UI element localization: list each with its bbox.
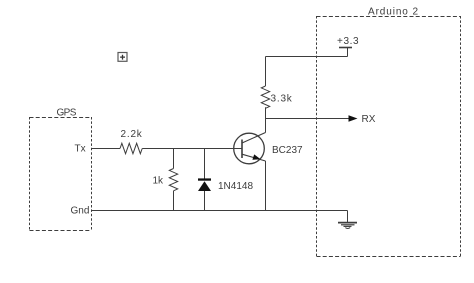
svg-text:1k: 1k xyxy=(153,175,165,186)
svg-text:GPS: GPS xyxy=(57,108,77,119)
svg-text:BC237: BC237 xyxy=(272,145,303,156)
svg-text:Arduino 2: Arduino 2 xyxy=(368,7,419,18)
svg-text:2.2k: 2.2k xyxy=(121,129,143,140)
svg-text:Tx: Tx xyxy=(75,144,86,155)
svg-text:+3.3: +3.3 xyxy=(337,36,359,47)
svg-text:3.3k: 3.3k xyxy=(271,94,293,105)
svg-text:1N4148: 1N4148 xyxy=(218,181,253,192)
svg-text:RX: RX xyxy=(362,114,376,125)
svg-text:Gnd: Gnd xyxy=(71,206,90,217)
